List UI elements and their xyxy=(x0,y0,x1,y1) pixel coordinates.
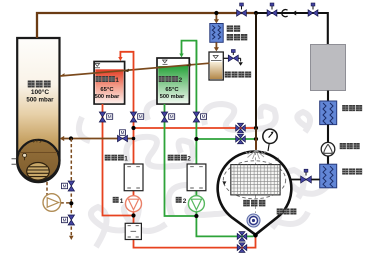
node xyxy=(69,201,73,205)
svg-text:1: 1 xyxy=(115,77,119,84)
cleaning chamber vessel xyxy=(218,151,292,234)
filter F1 xyxy=(124,164,143,191)
node xyxy=(194,137,198,141)
svg-text:500 mbar: 500 mbar xyxy=(160,94,185,100)
3-way valve green bottom xyxy=(237,232,247,242)
svg-text:2: 2 xyxy=(187,156,191,163)
svg-text:2: 2 xyxy=(179,77,183,84)
distillation condenser U1 xyxy=(210,24,223,43)
label: condenser 2 xyxy=(342,168,362,174)
node: chamber bottom xyxy=(253,233,258,238)
node xyxy=(254,126,258,130)
wire: tank bottom drain xyxy=(46,182,48,196)
valve on chamber-condenser line xyxy=(301,176,312,183)
wire: green tank2 bottom outlet xyxy=(165,104,197,216)
svg-text:M: M xyxy=(170,114,174,119)
pressure gauge xyxy=(268,144,269,152)
wire: red manifold to chamber top xyxy=(134,127,257,129)
valve M2 xyxy=(130,112,136,122)
circulation dashed ellipse xyxy=(223,161,285,199)
node xyxy=(132,137,136,141)
condenser C2 xyxy=(320,164,337,188)
node: header junction to chamber line xyxy=(254,11,258,15)
svg-text:M: M xyxy=(108,114,112,119)
watermark xyxy=(79,102,330,247)
ultrasonic transducer xyxy=(247,214,260,227)
label: pump 1 xyxy=(113,197,124,205)
3-way valve on green manifold xyxy=(236,134,246,144)
surface sparkle xyxy=(34,139,42,143)
exchanger box E1 xyxy=(125,223,141,239)
node xyxy=(131,126,135,130)
check symbol C xyxy=(282,10,288,17)
drain valve 1 xyxy=(68,181,75,191)
drain arrow xyxy=(238,57,240,59)
svg-text:1: 1 xyxy=(124,156,128,163)
vacuum pump xyxy=(321,142,335,156)
storage tank T2 xyxy=(157,58,189,104)
svg-text:2: 2 xyxy=(183,198,187,205)
liquid level line xyxy=(20,152,58,154)
wire xyxy=(327,91,329,102)
basket grid xyxy=(231,165,280,195)
node xyxy=(254,137,258,141)
wire: brown feed into distillation tank xyxy=(61,138,134,140)
wire: separator return diagonal xyxy=(60,63,210,76)
wire: dashed drain xyxy=(70,139,72,237)
wire: branch to distillation condenser xyxy=(215,13,217,22)
wire: header black segment to gray unit xyxy=(256,13,328,45)
svg-text:M: M xyxy=(63,184,67,189)
node xyxy=(131,213,135,217)
label: storage tank 2 xyxy=(159,76,183,84)
3-way valve red bottom xyxy=(237,243,247,253)
distillation tank outline xyxy=(17,38,59,161)
node: header-condenser junction xyxy=(214,11,218,15)
wire xyxy=(327,125,329,143)
svg-text:65°C: 65°C xyxy=(165,87,179,93)
valve V3 on header xyxy=(308,10,318,16)
spray fan xyxy=(248,150,265,159)
wire: condenser to water separator xyxy=(215,42,217,50)
valve M3 xyxy=(161,112,167,122)
wire xyxy=(327,156,329,164)
label: distillation condenser xyxy=(227,25,248,40)
label: filter 1 xyxy=(105,155,129,163)
heating coil in tank xyxy=(27,163,50,181)
valve M1 xyxy=(99,112,105,122)
gray unit (enclosure) xyxy=(311,45,346,91)
label: storage tank 1 xyxy=(95,76,119,84)
svg-text:M: M xyxy=(121,130,125,135)
svg-text:100°C: 100°C xyxy=(31,88,49,96)
wire: green main line 2 xyxy=(196,41,253,237)
node xyxy=(194,214,198,218)
label: tank name xyxy=(28,81,51,88)
svg-text:M: M xyxy=(202,114,206,119)
flow arrow left xyxy=(295,12,307,14)
pump P1 xyxy=(126,196,142,212)
valve at water separator xyxy=(223,57,228,59)
drain pump P3 xyxy=(43,194,61,212)
valve M4 xyxy=(193,112,199,122)
label: condenser xyxy=(342,105,362,111)
wire: chamber feed vertical xyxy=(255,13,257,128)
node xyxy=(69,136,73,140)
svg-text:65°C: 65°C xyxy=(100,87,114,93)
water separator xyxy=(209,52,223,80)
level instrument xyxy=(23,153,27,157)
wire: green return into tank2 xyxy=(182,41,197,60)
valve on brown feed xyxy=(118,135,128,141)
valve V1 on header xyxy=(237,10,247,16)
drain valve 2 xyxy=(68,215,75,225)
wire: tank top to main header xyxy=(37,13,256,38)
svg-text:M: M xyxy=(139,114,143,119)
level marks left of tank xyxy=(12,159,17,164)
svg-text:1: 1 xyxy=(120,198,124,205)
svg-text:500 mbar: 500 mbar xyxy=(95,94,120,100)
3-way valve on red manifold xyxy=(236,123,246,133)
svg-text:500 mbar: 500 mbar xyxy=(26,96,54,103)
wire: chamber to condenser2 xyxy=(291,179,319,181)
label: water separator xyxy=(225,71,252,77)
wire: green manifold to chamber top xyxy=(196,138,256,140)
valve V2 on header xyxy=(267,10,277,16)
center dashed line xyxy=(255,152,257,213)
wire: red return into tank1 xyxy=(120,52,133,60)
distillation tank body xyxy=(17,38,59,161)
label: ultrasonic xyxy=(277,208,297,214)
pump P2 xyxy=(188,196,204,212)
svg-text:M: M xyxy=(63,218,67,223)
label: pump 2 xyxy=(176,197,187,205)
label: filter 2 xyxy=(168,155,192,163)
wire: red tank1 bottom outlet xyxy=(103,104,134,216)
filter F2 xyxy=(187,164,206,191)
storage tank T1 xyxy=(94,62,125,105)
label: vacuum pump xyxy=(340,143,360,149)
distillation tank bottom circle xyxy=(17,140,59,182)
condenser C1 xyxy=(320,101,337,125)
label: cleaning chamber xyxy=(243,200,265,207)
wire: red main line 2 xyxy=(134,60,256,248)
